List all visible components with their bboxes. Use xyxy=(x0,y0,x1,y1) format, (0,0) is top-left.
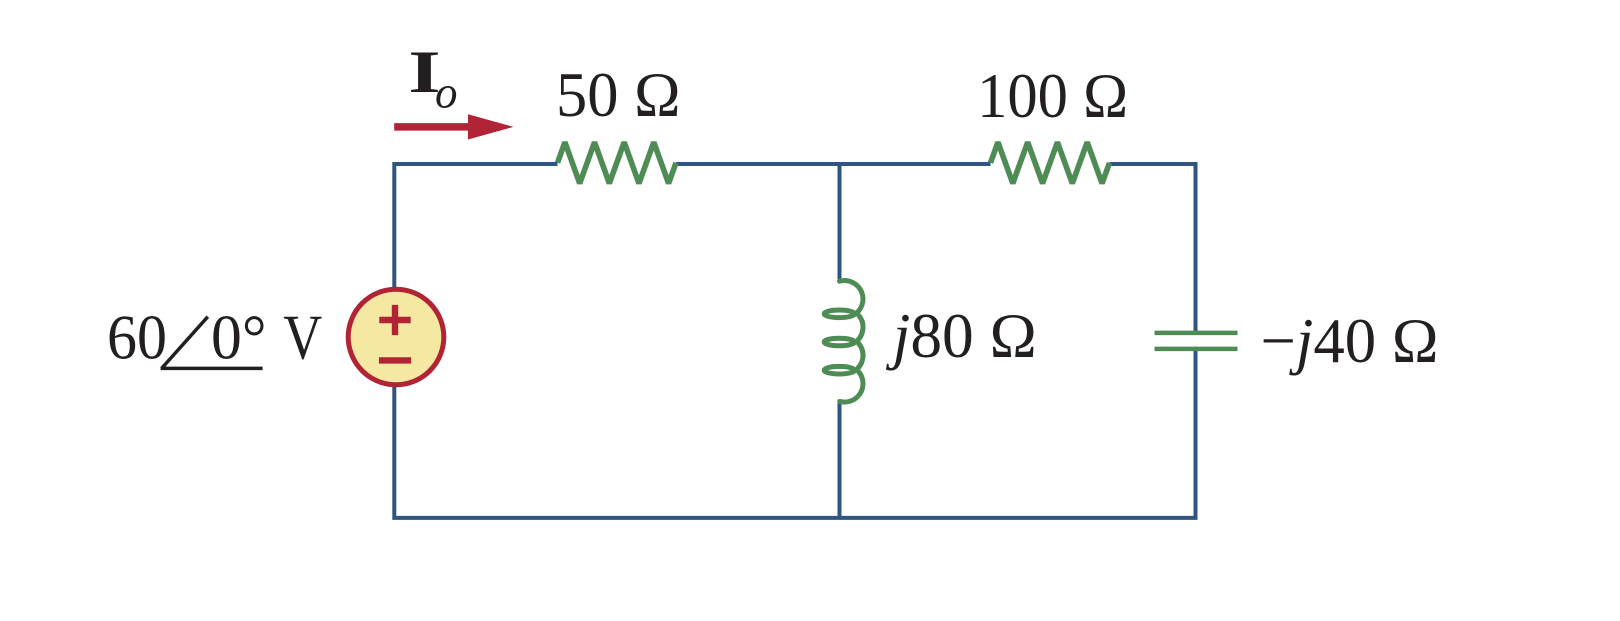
wire middle branch top xyxy=(838,164,842,282)
voltage source plus sign xyxy=(379,305,410,335)
inductor petal loop 1 xyxy=(824,310,854,318)
angle symbol xyxy=(161,317,263,369)
wire left lower, bottom rail, right lower xyxy=(394,350,1195,518)
svg-text:o: o xyxy=(435,68,458,118)
inductor bump arc 1 xyxy=(839,280,863,315)
inductor bump arc 4 xyxy=(840,372,863,402)
wire top-middle segment xyxy=(676,162,991,166)
wire top-left segment with top-left corner xyxy=(394,164,557,291)
resistor R1 50ohm zigzag xyxy=(558,142,677,183)
wire top-right segment with top-right corner xyxy=(1110,164,1196,331)
capacitor C1 bottom plate xyxy=(1155,347,1238,352)
svg-text:50 Ω: 50 Ω xyxy=(556,59,681,130)
inductor bump arc 3 xyxy=(854,344,863,372)
current arrow Io xyxy=(394,114,513,139)
svg-text:V: V xyxy=(283,302,322,373)
inductor bump arc 2 xyxy=(854,315,863,343)
svg-text:100 Ω: 100 Ω xyxy=(977,60,1128,131)
svg-text:−j40 Ω: −j40 Ω xyxy=(1261,305,1439,376)
inductor L1 j80 coil xyxy=(824,280,863,402)
resistor R2 100ohm zigzag xyxy=(991,142,1110,183)
svg-text:j80 Ω: j80 Ω xyxy=(886,300,1037,371)
capacitor C1 top plate xyxy=(1155,331,1238,336)
inductor petal loop 3 xyxy=(824,366,854,374)
svg-text:0°: 0° xyxy=(211,302,267,373)
voltage source minus sign xyxy=(379,357,411,363)
wire middle branch bottom xyxy=(838,400,842,518)
label I bold xyxy=(408,38,440,105)
svg-text:60: 60 xyxy=(107,302,167,373)
inductor petal loop 2 xyxy=(824,338,854,346)
voltage source V1 circle xyxy=(348,289,444,385)
